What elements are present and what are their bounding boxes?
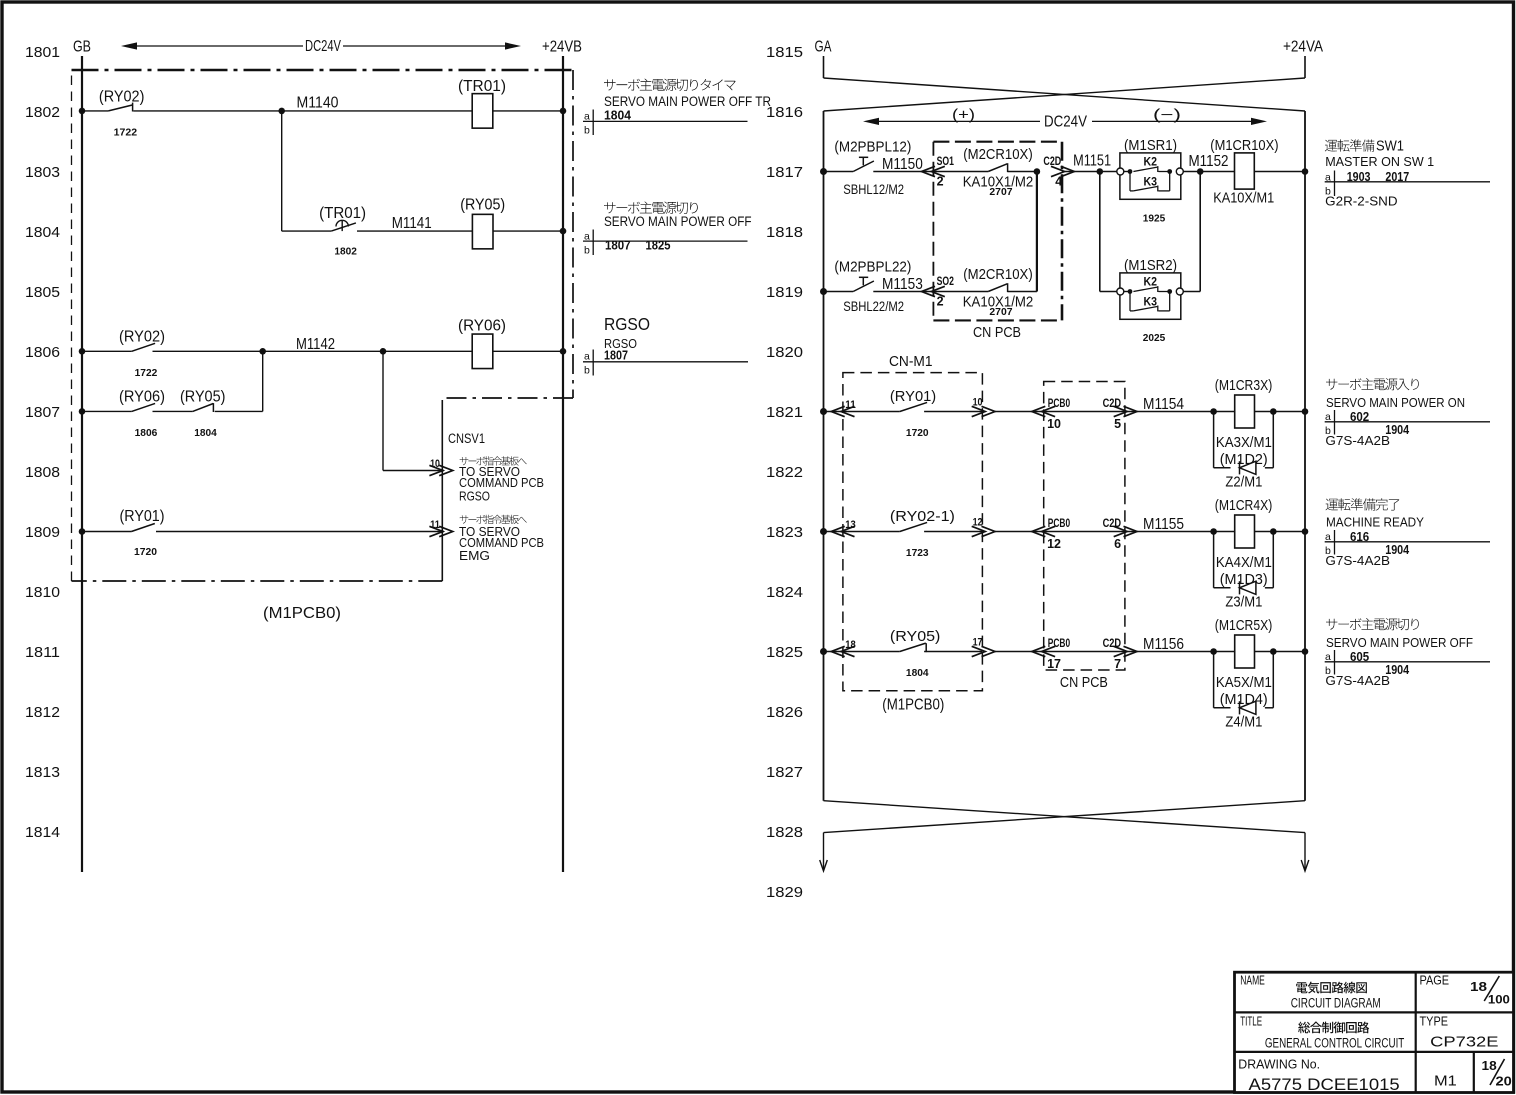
svg-text:(M1CR10X): (M1CR10X) (1210, 138, 1278, 154)
bus GA vertical (823, 111, 825, 801)
svg-text:a: a (584, 111, 590, 123)
wire inside PCB0 (1044, 651, 1125, 653)
svg-text:SW1: SW1 (1376, 138, 1404, 155)
junction 1806 to 1807 rung (259, 348, 266, 355)
wire M1SR2 inner left (1124, 291, 1130, 293)
wire 1817 inside CN PCB (933, 171, 988, 173)
svg-text:SERVO MAIN POWER OFF: SERVO MAIN POWER OFF (604, 214, 752, 229)
bus +24VA vertical (1304, 111, 1306, 801)
contact K2 in M1SR2 (1133, 286, 1169, 292)
CN-M1 connector box (dashed) (843, 373, 983, 691)
svg-text:EMG: EMG (459, 548, 490, 563)
svg-text:A5775 DCEE1015: A5775 DCEE1015 (1249, 1076, 1400, 1094)
svg-text:b: b (584, 125, 590, 137)
annotation 1804 servo main power off (583, 202, 752, 257)
svg-text:NAME: NAME (1240, 974, 1265, 988)
svg-text:1723: 1723 (906, 547, 929, 559)
svg-text:1824: 1824 (766, 584, 803, 601)
annotation 1817 master on sw1 (1325, 138, 1490, 209)
svg-text:17: 17 (973, 637, 983, 649)
coil RY05 row 1804 (460, 197, 505, 249)
svg-text:M1151: M1151 (1073, 153, 1111, 170)
svg-text:GA: GA (815, 39, 832, 56)
connector arrows C2D out (1051, 166, 1065, 176)
junction +24VB 1804 (560, 228, 567, 235)
coil M1CR3X (1235, 395, 1255, 428)
coil M1CR4X (1235, 515, 1255, 548)
svg-text:10: 10 (1047, 417, 1061, 431)
terminal circle M1SR1 left (1117, 168, 1124, 175)
junction 1802 branch (278, 108, 285, 115)
bus GB vertical (81, 56, 83, 872)
svg-text:M1152: M1152 (1189, 153, 1229, 170)
svg-text:(M2PBPL12): (M2PBPL12) (834, 138, 911, 155)
contact RY02 (NO) row 1806 (132, 343, 155, 351)
wire M1SR1 inner left (1124, 171, 1130, 173)
contact RY01 (NO) row 1809 (131, 524, 154, 532)
wire inside PCB0 (1044, 531, 1125, 533)
exit arrow left bottom (820, 833, 828, 871)
PCB0 connector box (dashed) (1044, 382, 1125, 671)
svg-text:1809: 1809 (25, 524, 60, 541)
svg-text:12: 12 (1047, 537, 1061, 551)
svg-text:1722: 1722 (114, 126, 138, 138)
svg-text:(RY05): (RY05) (180, 388, 225, 405)
svg-text:1818: 1818 (766, 224, 803, 241)
wire M1SR2 feed right (1183, 291, 1200, 293)
svg-text:1807: 1807 (25, 404, 60, 421)
svg-text:DRAWING No.: DRAWING No. (1238, 1057, 1320, 1071)
bus +24VB vertical (562, 56, 564, 872)
svg-text:1802: 1802 (25, 104, 60, 121)
DC24V header arrow left half (121, 38, 521, 55)
left row numbers 1801-1814 (25, 44, 60, 841)
svg-text:1829: 1829 (766, 884, 803, 901)
svg-text:SBHL12/M2: SBHL12/M2 (843, 181, 904, 197)
connector arrow into CNSV1 pin 10 (429, 465, 443, 475)
connector arrows pin 18 CN-M1 (831, 646, 845, 656)
svg-text:13: 13 (845, 519, 856, 531)
connector arrows pin 12 CN-M1 (972, 526, 986, 536)
coil TR01 (458, 78, 506, 128)
wire SO1/SO2 common vertical (1036, 172, 1038, 292)
svg-text:(M1CR5X): (M1CR5X) (1215, 618, 1273, 634)
svg-text:CN-M1: CN-M1 (889, 354, 933, 370)
svg-text:1807: 1807 (604, 349, 628, 363)
junction M1SR1 inner left (1128, 169, 1133, 174)
bus GA top stub (823, 56, 825, 78)
svg-text:18: 18 (1482, 1058, 1497, 1073)
svg-text:10: 10 (973, 397, 983, 409)
wire coil to bus (1255, 651, 1306, 653)
svg-text:1815: 1815 (766, 44, 803, 61)
junction +24VA 411 (1302, 408, 1309, 415)
svg-text:RGSO: RGSO (459, 489, 490, 504)
svg-text:SBHL22/M2: SBHL22/M2 (843, 298, 904, 314)
junction +24VA 651 (1302, 648, 1309, 655)
svg-text:GENERAL CONTROL CIRCUIT: GENERAL CONTROL CIRCUIT (1265, 1035, 1404, 1050)
wire contact to pin 10 (924, 411, 982, 413)
svg-text:b: b (584, 245, 590, 257)
svg-text:1805: 1805 (25, 284, 60, 301)
wire 1802 contact to coil (133, 110, 472, 112)
wire branch 1802 to 1804 vertical (281, 111, 283, 231)
svg-text:1812: 1812 (25, 704, 60, 721)
svg-text:M1142: M1142 (296, 336, 335, 353)
junction GA 1817 (820, 168, 827, 175)
svg-text:6: 6 (1114, 537, 1121, 551)
connector arrows PCB0 in (1032, 646, 1046, 656)
svg-text:1828: 1828 (766, 824, 803, 841)
CN PCB board box (dashed) (933, 142, 1062, 321)
svg-text:SO1: SO1 (937, 156, 955, 168)
svg-text:1816: 1816 (766, 104, 803, 121)
diode M1D4 loop (1214, 652, 1274, 715)
wire 1807 bus to contact (82, 410, 132, 412)
svg-text:10: 10 (430, 458, 440, 470)
connector arrows C2D out (1114, 646, 1128, 656)
wire 1817 pushbutton to SO1 (873, 171, 933, 173)
wire to contact RY02-1 (856, 531, 900, 533)
junction +24VA 531 (1302, 528, 1309, 535)
junction GA 531 (820, 528, 827, 535)
svg-text:CN PCB: CN PCB (973, 325, 1021, 341)
wire 1802 coil to bus (493, 110, 563, 112)
svg-text:18: 18 (845, 639, 856, 651)
junction M1152 branch (1197, 168, 1204, 175)
svg-text:KA5X/M1: KA5X/M1 (1216, 675, 1272, 691)
svg-text:a: a (584, 351, 590, 363)
diode M1D3 loop (1214, 532, 1274, 595)
svg-text:PCB0: PCB0 (1048, 398, 1070, 410)
svg-text:(M1CR3X): (M1CR3X) (1215, 378, 1273, 394)
svg-text:+24VB: +24VB (542, 39, 582, 56)
svg-text:SERVO MAIN POWER OFF TR: SERVO MAIN POWER OFF TR (604, 94, 771, 109)
svg-text:a: a (1325, 531, 1331, 543)
junction +24VB 1802 (560, 108, 567, 115)
wire contact to pin 17 (924, 651, 982, 653)
wire to contact RY01 (856, 411, 900, 413)
svg-text:Z4/M1: Z4/M1 (1225, 715, 1262, 731)
svg-text:(TR01): (TR01) (458, 78, 506, 95)
junction GA 651 (820, 648, 827, 655)
wire 1806 contact to coil (153, 350, 473, 352)
svg-text:(M1PCB0): (M1PCB0) (263, 605, 341, 622)
contact M2CR10X row 1819 (988, 283, 1007, 292)
svg-text:1825: 1825 (646, 238, 671, 252)
DC24V header arrow right half (863, 114, 1267, 131)
svg-text:(RY05): (RY05) (890, 628, 941, 645)
contact RY06 (NO) row 1807 (132, 403, 155, 411)
svg-text:GB: GB (73, 39, 91, 56)
svg-text:11: 11 (430, 519, 440, 531)
svg-text:2707: 2707 (989, 306, 1012, 318)
wire coil to bus (1255, 411, 1306, 413)
terminal circle M1SR1 right (1176, 168, 1183, 175)
wire 1819 contact to common vertical (1008, 291, 1037, 293)
wire rung from bus (824, 411, 857, 413)
svg-text:KA10X/M1: KA10X/M1 (1213, 191, 1274, 207)
svg-text:(RY02-1): (RY02-1) (890, 508, 955, 525)
junction GB 1807 (79, 408, 86, 415)
connector arrows C2D out (1114, 526, 1128, 536)
svg-text:1810: 1810 (25, 584, 60, 601)
wire 1804 coil to bus (493, 230, 563, 232)
contact K3 loop in M1SR2 (1130, 292, 1170, 312)
wire CN-M1 to PCB0 (995, 411, 1044, 413)
svg-text:b: b (584, 365, 590, 377)
svg-text:1804: 1804 (194, 427, 217, 439)
svg-text:PCB0: PCB0 (1048, 518, 1070, 530)
svg-text:1804: 1804 (906, 667, 929, 679)
svg-text:1802: 1802 (334, 246, 357, 258)
connector arrows SO2 (922, 286, 936, 296)
bus +24VA top stub (1304, 56, 1306, 78)
wire 1819 inside CN PCB (933, 291, 988, 293)
crossover wires top (824, 78, 1306, 111)
annotation 1821 servo main power on (1325, 378, 1490, 448)
svg-text:1817: 1817 (766, 164, 803, 181)
svg-text:17: 17 (1047, 657, 1061, 671)
svg-text:a: a (1325, 411, 1331, 423)
svg-text:7: 7 (1114, 657, 1121, 671)
wire 1807 between contacts (153, 410, 193, 412)
svg-text:SO2: SO2 (937, 276, 954, 288)
junction diode left M1D2 (1210, 408, 1217, 415)
svg-text:1925: 1925 (1143, 212, 1166, 224)
svg-text:M1: M1 (1434, 1072, 1457, 1089)
svg-text:20: 20 (1496, 1073, 1512, 1088)
junction +24VA 1817 (1302, 168, 1309, 175)
relay M1SR2 box (1120, 273, 1181, 319)
svg-text:K3: K3 (1144, 294, 1158, 308)
svg-text:K3: K3 (1144, 174, 1158, 188)
wire 1809 bus to contact (82, 531, 131, 533)
junction GB 1809 (79, 528, 86, 535)
junction diode left M1D3 (1210, 528, 1217, 535)
wire RGSO tap down and right (382, 351, 384, 470)
junction M1151 branch (1097, 168, 1104, 175)
svg-text:TYPE: TYPE (1420, 1014, 1449, 1028)
title block (1235, 972, 1514, 1094)
wire CN-M1 to PCB0 (995, 651, 1044, 653)
svg-text:PCB0: PCB0 (1048, 638, 1070, 650)
annotation 1806 RGSO (583, 314, 748, 377)
svg-text:KA4X/M1: KA4X/M1 (1216, 555, 1272, 571)
pushbutton M2PBPL12 (853, 161, 874, 172)
coil M1CR10X (1235, 153, 1255, 189)
svg-text:1808: 1808 (25, 464, 60, 481)
wire rung from bus (824, 531, 857, 533)
connector arrows pin 13 CN-M1 (831, 526, 845, 536)
annotation 1825 servo main power off (1325, 618, 1490, 688)
connector CNSV1 line (441, 400, 443, 581)
annotation to servo command pcb RGSO (459, 456, 544, 503)
wire 1817 bus to pushbutton (824, 171, 854, 173)
svg-text:RGSO: RGSO (604, 314, 650, 334)
svg-text:1821: 1821 (766, 404, 803, 421)
connector arrows pin 17 CN-M1 (972, 646, 986, 656)
svg-text:a: a (1325, 651, 1331, 663)
svg-text:(RY02): (RY02) (119, 328, 165, 345)
wire PCB0 to coil (1125, 651, 1235, 653)
wire 1819 pushbutton to SO2 (873, 291, 933, 293)
svg-text:2025: 2025 (1143, 332, 1166, 344)
svg-text:CN PCB: CN PCB (1060, 675, 1108, 691)
junction M1SR2 inner left (1128, 289, 1133, 294)
wire 1807 contact to rung corner (215, 410, 263, 412)
timer contact TR01 row 1804 (331, 220, 356, 231)
svg-text:(M2PBPL22): (M2PBPL22) (834, 258, 911, 275)
wire 1802 bus to contact (82, 110, 108, 112)
svg-text:SERVO MAIN POWER ON: SERVO MAIN POWER ON (1326, 395, 1465, 410)
connector arrows PCB0 in (1032, 526, 1046, 536)
wire 1809 contact to connector (156, 531, 444, 533)
svg-text:1720: 1720 (134, 546, 157, 558)
svg-text:1720: 1720 (906, 427, 929, 439)
svg-text:1806: 1806 (25, 344, 60, 361)
svg-text:1820: 1820 (766, 344, 803, 361)
svg-text:Z2/M1: Z2/M1 (1225, 475, 1262, 491)
annotation to servo command pcb EMG (459, 515, 544, 563)
wire PCB0 to coil (1125, 531, 1235, 533)
svg-text:1811: 1811 (25, 644, 60, 661)
svg-text:(M1SR2): (M1SR2) (1124, 258, 1177, 274)
pushbutton M2PBPL22 (853, 281, 874, 292)
connector arrows pin 10 CN-M1 (972, 406, 986, 416)
svg-text:2: 2 (937, 295, 944, 309)
contact RY02-1 (NO) (900, 522, 927, 531)
svg-text:1825: 1825 (766, 644, 803, 661)
contact K2 in M1SR1 (1133, 166, 1169, 172)
wire rung from bus (824, 651, 857, 653)
svg-text:DC24V: DC24V (305, 38, 341, 55)
svg-text:SERVO MAIN POWER OFF: SERVO MAIN POWER OFF (1326, 635, 1473, 650)
connector arrows C2D out (1114, 406, 1128, 416)
svg-text:PAGE: PAGE (1420, 974, 1450, 988)
svg-text:(M1PCB0): (M1PCB0) (882, 696, 944, 713)
svg-text:CNSV1: CNSV1 (448, 431, 485, 446)
junction C2D vertical 1817 (1034, 168, 1041, 175)
svg-text:(RY01): (RY01) (890, 388, 936, 405)
junction GB 1802 (79, 108, 86, 115)
coil M1CR5X (1235, 635, 1255, 668)
exit arrow right bottom (1301, 833, 1309, 871)
svg-text:1819: 1819 (766, 284, 803, 301)
junction diode left M1D4 (1210, 648, 1217, 655)
svg-text:M1156: M1156 (1143, 636, 1184, 653)
svg-text:M1155: M1155 (1143, 516, 1184, 533)
svg-text:M1150: M1150 (882, 156, 923, 173)
svg-text:12: 12 (973, 517, 983, 529)
coil RY06 row 1806 (458, 318, 506, 369)
svg-text:K2: K2 (1144, 155, 1158, 169)
relay M1SR1 box (1120, 153, 1181, 199)
svg-text:(RY06): (RY06) (458, 318, 506, 335)
wire 1817 contact to C2D (1008, 171, 1037, 173)
annotation 1823 machine ready (1325, 498, 1490, 568)
svg-text:G7S-4A2B: G7S-4A2B (1325, 673, 1390, 688)
contact RY05 (NC) row 1807 (193, 403, 214, 412)
wire 1806 coil to bus (493, 350, 563, 352)
connector arrow into CNSV1 pin 11 (429, 526, 443, 536)
svg-text:CP732E: CP732E (1430, 1034, 1498, 1051)
svg-text:CIRCUIT DIAGRAM: CIRCUIT DIAGRAM (1291, 996, 1381, 1011)
connector arrows PCB0 in (1032, 406, 1046, 416)
annotation 1802 servo main power off timer (583, 79, 771, 137)
svg-text:(TR01): (TR01) (319, 205, 366, 222)
svg-text:1722: 1722 (135, 367, 158, 379)
svg-text:G7S-4A2B: G7S-4A2B (1325, 553, 1390, 568)
svg-text:MASTER ON SW 1: MASTER ON SW 1 (1325, 154, 1434, 169)
svg-text:1803: 1803 (25, 164, 60, 181)
svg-text:M1141: M1141 (392, 215, 432, 232)
contact RY01 (NO) (900, 402, 927, 411)
contact RY05 (NC) (900, 643, 926, 652)
wire 1806 bus to contact (82, 350, 132, 352)
wire CN-M1 to PCB0 (995, 531, 1044, 533)
wire 1804 to contact (282, 230, 332, 232)
svg-text:1804: 1804 (25, 224, 60, 241)
svg-text:DC24V: DC24V (1044, 114, 1088, 131)
svg-text:MACHINE READY: MACHINE READY (1326, 515, 1424, 530)
terminal circle M1SR2 left (1117, 288, 1124, 295)
connector arrows pin 11 CN-M1 (831, 406, 845, 416)
svg-text:1822: 1822 (766, 464, 803, 481)
wire contact to pin 12 (924, 531, 982, 533)
svg-text:K2: K2 (1144, 275, 1158, 289)
junction diode right M1D4 (1270, 648, 1277, 655)
wire to contact RY05 (856, 651, 900, 653)
svg-text:G7S-4A2B: G7S-4A2B (1325, 433, 1390, 448)
crossover wires bottom (824, 801, 1306, 833)
svg-text:(RY05): (RY05) (460, 197, 505, 214)
svg-text:G2R-2-SND: G2R-2-SND (1325, 194, 1397, 209)
wire 1804 contact to coil (357, 230, 472, 232)
junction 1806 RGSO tap (380, 348, 387, 355)
svg-text:1827: 1827 (766, 764, 803, 781)
svg-text:1807: 1807 (605, 238, 631, 252)
svg-text:KA3X/M1: KA3X/M1 (1216, 435, 1272, 451)
svg-text:(RY02): (RY02) (99, 89, 144, 106)
svg-text:+24VA: +24VA (1283, 39, 1324, 56)
contact M2CR10X row 1817 (988, 163, 1007, 172)
junction M1SR2 inner right (1167, 289, 1172, 294)
wire coil to bus (1255, 531, 1306, 533)
svg-text:1823: 1823 (766, 524, 803, 541)
diode M1D2 loop (1214, 412, 1274, 475)
svg-text:1814: 1814 (25, 824, 60, 841)
svg-text:(RY01): (RY01) (120, 508, 165, 525)
junction diode right M1D3 (1270, 528, 1277, 535)
svg-text:(M2CR10X): (M2CR10X) (963, 147, 1032, 163)
wire 1819 bus to pushbutton (824, 291, 854, 293)
svg-text:1813: 1813 (25, 764, 60, 781)
contact K3 loop in M1SR1 (1130, 172, 1170, 192)
terminal circle M1SR2 right (1176, 288, 1183, 295)
svg-text:1804: 1804 (604, 109, 631, 123)
svg-text:1806: 1806 (135, 427, 158, 439)
wire M1SR1 to coil (1183, 171, 1234, 173)
wire 1817 C2D to M1SR1 (1062, 171, 1120, 173)
wire PCB0 to coil (1125, 411, 1235, 413)
svg-text:11: 11 (845, 399, 856, 411)
svg-text:1801: 1801 (25, 44, 60, 61)
wire M1SR2 feed left (1099, 172, 1101, 292)
svg-text:2707: 2707 (989, 186, 1012, 198)
svg-text:(M1SR1): (M1SR1) (1124, 138, 1177, 154)
svg-text:2: 2 (937, 175, 944, 189)
